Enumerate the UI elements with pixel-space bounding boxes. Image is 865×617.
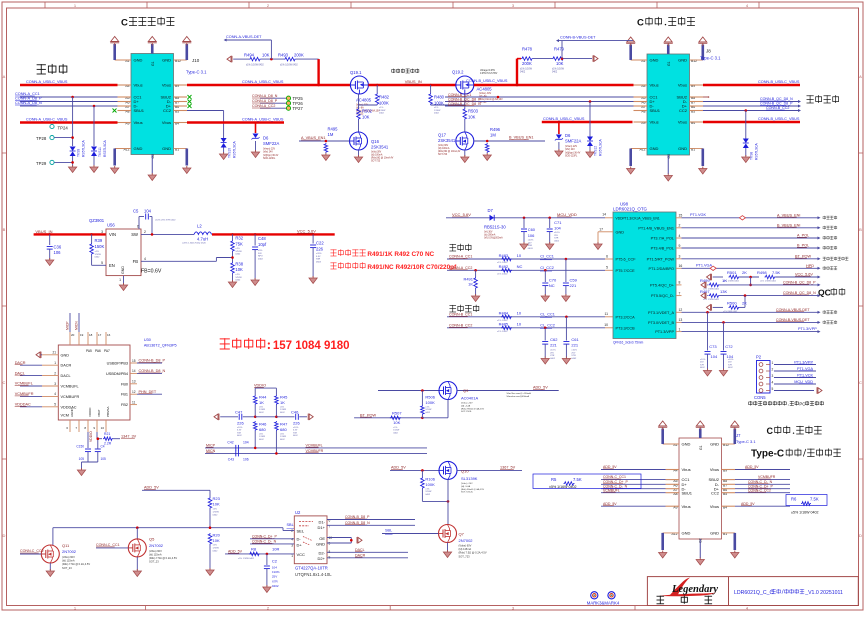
- svg-text:VCC_5.6V: VCC_5.6V: [795, 272, 813, 276]
- svg-text:±5%: ±5%: [259, 407, 263, 409]
- svg-text:C: C: [637, 18, 644, 29]
- svg-text:(Rds) 8Ω @ 10mA,4V: (Rds) 8Ω @ 10mA,4V: [438, 150, 461, 153]
- svg-text:LDR6021Q_OTG: LDR6021Q_OTG: [613, 207, 648, 212]
- svg-text:MCU_VDD: MCU_VDD: [794, 380, 813, 384]
- svg-text:CONN-A_CC2: CONN-A_CC2: [252, 104, 275, 108]
- svg-text:MICP: MICP: [66, 321, 70, 330]
- svg-text:PT5.4/QC_D+: PT5.4/QC_D+: [650, 283, 675, 287]
- svg-text:Vbus: Vbus: [162, 120, 171, 125]
- svg-text:X5R: X5R: [528, 245, 533, 247]
- svg-text:CONN-B_CC2: CONN-B_CC2: [449, 324, 472, 328]
- svg-text:1/16W: 1/16W: [95, 254, 102, 256]
- svg-text:9: 9: [679, 244, 681, 248]
- svg-text:PT1.5/RT_POW: PT1.5/RT_POW: [647, 257, 675, 261]
- svg-text:VCMBUFL: VCMBUFL: [306, 443, 323, 447]
- svg-text:25V: 25V: [571, 352, 575, 354]
- svg-text:SOT-723: SOT-723: [371, 161, 381, 163]
- svg-text:AC4805: AC4805: [477, 87, 493, 92]
- svg-text:18: 18: [89, 333, 93, 337]
- svg-text:4: 4: [679, 234, 681, 238]
- svg-text:7.5K: 7.5K: [810, 497, 819, 502]
- svg-text:680: 680: [259, 427, 266, 432]
- svg-text:0.05V=5.6-5.55V: 0.05V=5.6-5.55V: [480, 73, 498, 75]
- svg-text:NC: NC: [517, 264, 523, 269]
- svg-text:CONN-A-VBUS-DET: CONN-A-VBUS-DET: [226, 35, 262, 39]
- svg-text:Vbus: Vbus: [134, 120, 143, 125]
- svg-text:BT_POW: BT_POW: [360, 413, 376, 417]
- svg-text:R6: R6: [791, 497, 797, 502]
- svg-text:100K: 100K: [434, 100, 444, 105]
- svg-text:PT1.VGA: PT1.VGA: [696, 264, 713, 268]
- svg-text:SOD-123FL: SOD-123FL: [565, 156, 578, 158]
- svg-text:R46: R46: [259, 422, 267, 427]
- svg-text:0402: 0402: [552, 72, 558, 74]
- svg-text:±1%: ±1%: [95, 251, 99, 253]
- svg-text:D2-: D2-: [319, 550, 326, 555]
- svg-text:TVS12: TVS12: [594, 146, 598, 156]
- svg-text:±10%: ±10%: [728, 359, 733, 361]
- svg-text:(Id) 115mA: (Id) 115mA: [459, 547, 472, 551]
- svg-text:X5R: X5R: [293, 432, 298, 434]
- svg-text:0402: 0402: [554, 240, 560, 242]
- svg-text:TVS9: TVS9: [77, 149, 81, 157]
- svg-text:(Vdss) -20V: (Vdss) -20V: [461, 483, 473, 485]
- svg-text:CONN-B_D8_N: CONN-B_D8_N: [345, 521, 370, 525]
- svg-text:R492: R492: [499, 264, 509, 269]
- svg-text:5: 5: [101, 261, 103, 265]
- svg-text:GND: GND: [316, 542, 325, 547]
- svg-text:R106: R106: [425, 476, 435, 481]
- svg-text:RS5TL9CA: RS5TL9CA: [103, 140, 107, 157]
- svg-text:C61: C61: [571, 337, 579, 342]
- svg-text:VBAT: VBAT: [97, 409, 101, 417]
- svg-text:R483: R483: [499, 253, 509, 258]
- svg-text:(Vds) 30V: (Vds) 30V: [438, 145, 449, 147]
- svg-text:104: 104: [272, 566, 277, 570]
- svg-text:AGND: AGND: [70, 407, 74, 417]
- svg-text:Type-C 3.1: Type-C 3.1: [736, 439, 756, 444]
- svg-text:X5R: X5R: [237, 432, 242, 434]
- svg-text:(Id) -4.2A: (Id) -4.2A: [461, 404, 471, 407]
- svg-text:D6: D6: [565, 133, 571, 138]
- svg-text:7.5K: 7.5K: [573, 477, 582, 482]
- svg-text:10pf: 10pf: [258, 242, 267, 247]
- svg-text:6.3V: 6.3V: [293, 430, 298, 432]
- svg-text:HPD: HPD: [806, 264, 814, 268]
- svg-text:B_VBUS_ENI: B_VBUS_ENI: [777, 223, 800, 227]
- svg-text:0402: 0402: [213, 550, 219, 552]
- svg-text:R501: R501: [727, 270, 737, 275]
- svg-text:J8: J8: [706, 49, 711, 54]
- svg-text:ADD_5V: ADD_5V: [603, 502, 617, 506]
- svg-text:VCMBUFL: VCMBUFL: [61, 385, 79, 389]
- svg-text:CONN-C_CC1: CONN-C_CC1: [603, 475, 626, 479]
- svg-text:VDDIO: VDDIO: [88, 407, 92, 417]
- svg-text:TP29: TP29: [36, 161, 47, 166]
- svg-text:SOT_723: SOT_723: [459, 554, 471, 558]
- svg-text:GND: GND: [121, 266, 125, 274]
- svg-text:VDDIO: VDDIO: [254, 384, 266, 388]
- svg-text:R507: R507: [392, 410, 402, 415]
- svg-text:13K: 13K: [720, 289, 727, 294]
- svg-text:±5% 1/16W 0402: ±5% 1/16W 0402: [238, 558, 255, 560]
- svg-text:25V: 25V: [554, 235, 558, 237]
- svg-text:C46: C46: [291, 409, 299, 414]
- svg-text:Vbus: Vbus: [678, 83, 687, 88]
- svg-text:R45: R45: [280, 395, 288, 400]
- svg-text:CONN-B_QC_D8_N: CONN-B_QC_D8_N: [760, 97, 793, 101]
- svg-text:FB=0.6V: FB=0.6V: [141, 268, 162, 274]
- svg-text:C62: C62: [550, 337, 558, 342]
- svg-text:(Id) 100mA: (Id) 100mA: [438, 147, 450, 150]
- svg-text:106: 106: [528, 233, 535, 238]
- svg-text:VCC_5.6V: VCC_5.6V: [452, 212, 471, 217]
- svg-text:A_VBUS_EN1: A_VBUS_EN1: [301, 136, 325, 140]
- svg-text:±5%: ±5%: [280, 434, 284, 436]
- svg-text:±5%: ±5%: [213, 545, 217, 547]
- svg-text:226: 226: [316, 246, 324, 251]
- svg-text:1: 1: [679, 327, 681, 331]
- svg-text:DACL: DACL: [61, 374, 71, 378]
- svg-text:CONN-C_D-_N: CONN-C_D-_N: [252, 539, 277, 543]
- svg-text:SL3139K: SL3139K: [461, 476, 478, 481]
- svg-text:0402: 0402: [258, 258, 264, 260]
- svg-text:TVS8: TVS8: [750, 152, 754, 160]
- svg-text:±5%: ±5%: [258, 250, 262, 252]
- svg-text:±1%: ±1%: [434, 107, 438, 109]
- svg-text:R20: R20: [213, 532, 221, 537]
- svg-text:17: 17: [98, 333, 102, 337]
- svg-text:PC: PC: [799, 402, 805, 407]
- svg-text:EN: EN: [109, 263, 115, 268]
- svg-text:ADD_5V: ADD_5V: [745, 465, 759, 469]
- svg-text:±10%: ±10%: [272, 570, 280, 574]
- svg-text:1/16W: 1/16W: [425, 409, 431, 411]
- svg-text:SMF22A: SMF22A: [263, 141, 279, 146]
- svg-text:U56: U56: [107, 223, 115, 228]
- svg-text:U2: U2: [295, 510, 301, 515]
- svg-text:DACR: DACR: [355, 553, 366, 557]
- svg-text:5: 5: [54, 403, 56, 407]
- svg-text:PA5: PA5: [86, 349, 92, 353]
- svg-text:J7: J7: [736, 433, 741, 438]
- svg-text:(Rds) 78mΩ @ 4A,4.5V: (Rds) 78mΩ @ 4A,4.5V: [461, 407, 485, 410]
- svg-text:CONN-A_USB-C_VBUS: CONN-A_USB-C_VBUS: [242, 80, 284, 84]
- svg-text:RS5TL9CA: RS5TL9CA: [755, 143, 759, 160]
- svg-text:PT1.VGA: PT1.VGA: [797, 367, 814, 371]
- svg-text:PHN_DET: PHN_DET: [139, 390, 157, 394]
- svg-text:GND: GND: [678, 58, 687, 63]
- svg-text:10: 10: [517, 253, 522, 258]
- svg-text:VDDPT1.3/CKJA_VBUS_EN1: VDDPT1.3/CKJA_VBUS_EN1: [616, 216, 660, 220]
- svg-text:4: 4: [144, 257, 146, 261]
- svg-text:CI_CC1: CI_CC1: [540, 255, 554, 259]
- svg-text:1/16W: 1/16W: [235, 251, 242, 253]
- svg-text:R479: R479: [554, 47, 565, 52]
- svg-text:±1%: ±1%: [379, 107, 383, 109]
- svg-text:Vbus: Vbus: [134, 83, 143, 88]
- svg-text:25V: 25V: [728, 362, 732, 364]
- svg-text:(Id) 115mA: (Id) 115mA: [62, 559, 75, 563]
- svg-text:Type-C 3.1: Type-C 3.1: [186, 70, 207, 75]
- svg-text:2N7002: 2N7002: [149, 543, 164, 548]
- svg-text:R495: R495: [328, 127, 339, 132]
- svg-text:15: 15: [132, 359, 136, 363]
- svg-text:200K: 200K: [294, 52, 304, 57]
- svg-text:SOD-123FL: SOD-123FL: [263, 158, 276, 160]
- svg-text:NPO: NPO: [258, 256, 263, 258]
- svg-text:C47: C47: [235, 409, 243, 414]
- svg-text:D+: D+: [297, 543, 303, 548]
- svg-text:C43: C43: [228, 457, 234, 461]
- svg-text:CONN-B_CC1: CONN-B_CC1: [449, 313, 472, 317]
- svg-text:PT3.2/CCA: PT3.2/CCA: [616, 315, 636, 319]
- svg-text:106: 106: [243, 457, 249, 461]
- svg-text:CONN-C_CC2: CONN-C_CC2: [20, 549, 44, 553]
- svg-text:C4: C4: [101, 445, 105, 449]
- svg-text:U30: U30: [144, 338, 151, 342]
- svg-text:1K: 1K: [468, 282, 473, 287]
- svg-text:±5%: ±5%: [259, 434, 263, 436]
- svg-text:(Vdss) 60V: (Vdss) 60V: [62, 555, 75, 559]
- svg-text:CONN-C_D-_N: CONN-C_D-_N: [748, 480, 773, 484]
- svg-text:100K: 100K: [425, 482, 435, 487]
- svg-text:Vbus: Vbus: [650, 83, 659, 88]
- svg-text:MICN: MICN: [206, 449, 216, 453]
- svg-text:SW: SW: [131, 232, 138, 237]
- svg-text:CONN-A_CC2: CONN-A_CC2: [449, 266, 472, 270]
- svg-text:QZ3901: QZ3901: [89, 218, 105, 223]
- svg-text:FB2: FB2: [121, 403, 128, 407]
- svg-text:PT3.0/VDET_B: PT3.0/VDET_B: [648, 321, 674, 325]
- svg-text:GND: GND: [682, 442, 691, 447]
- svg-text:±10%: ±10%: [700, 359, 705, 361]
- svg-text:C: C: [121, 18, 128, 29]
- svg-text:G1: G1: [151, 61, 155, 66]
- svg-text:A: A: [3, 74, 6, 79]
- svg-text:±1% 1/16W 0402: ±1% 1/16W 0402: [280, 65, 298, 67]
- svg-text:RS5TL9CA: RS5TL9CA: [233, 141, 237, 158]
- svg-text:MARK3&MARK4: MARK3&MARK4: [587, 601, 620, 606]
- svg-text:1: 1: [772, 361, 774, 365]
- svg-text:SBL: SBL: [287, 523, 294, 527]
- svg-text:0402: 0402: [235, 254, 241, 256]
- svg-text:C71: C71: [554, 220, 562, 225]
- svg-text:SBU1: SBU1: [134, 108, 145, 113]
- svg-text:CONN-B-VBUS-DET: CONN-B-VBUS-DET: [560, 36, 596, 40]
- svg-text:1347_3V: 1347_3V: [121, 434, 137, 438]
- svg-text:OE: OE: [319, 536, 325, 541]
- svg-text:±1%: ±1%: [425, 489, 429, 491]
- svg-text:25V: 25V: [550, 352, 554, 354]
- svg-text:0402: 0402: [379, 113, 385, 115]
- svg-text:B_POL: B_POL: [797, 244, 809, 248]
- svg-text:±1%: ±1%: [235, 274, 239, 276]
- svg-text:R485: R485: [499, 322, 509, 327]
- svg-text:VBUS_IN: VBUS_IN: [405, 79, 422, 84]
- svg-text:GND: GND: [134, 58, 143, 63]
- svg-text:2SK3541: 2SK3541: [371, 145, 389, 150]
- svg-text:2K: 2K: [742, 301, 747, 306]
- svg-text:105: 105: [79, 457, 85, 461]
- svg-text:ADD_5V: ADD_5V: [603, 465, 617, 469]
- svg-text:10K: 10K: [213, 501, 220, 506]
- svg-text:1/16W: 1/16W: [259, 436, 265, 438]
- svg-text:(Rds) 53mΩ @ 4A,4.5V: (Rds) 53mΩ @ 4A,4.5V: [461, 488, 485, 491]
- svg-text:2.2R: 2.2R: [104, 442, 112, 446]
- svg-text:C59: C59: [570, 277, 578, 282]
- svg-text:NC: NC: [549, 283, 555, 288]
- svg-text:D: D: [859, 533, 862, 538]
- svg-text:VCMBUFR: VCMBUFR: [61, 395, 80, 399]
- svg-text:0402: 0402: [434, 113, 440, 115]
- svg-text:(Vrwm) 22V: (Vrwm) 22V: [263, 148, 276, 151]
- svg-text:(Rds) 7.5Ω @ 0.2A,4.5V: (Rds) 7.5Ω @ 0.2A,4.5V: [149, 556, 177, 560]
- svg-text:0402: 0402: [550, 358, 556, 360]
- svg-text:CONN-B_QC_D8_N: CONN-B_QC_D8_N: [783, 291, 816, 295]
- svg-text:104: 104: [554, 226, 561, 231]
- svg-text:CL_CC1: CL_CC1: [540, 313, 555, 317]
- svg-text:CC2: CC2: [679, 108, 688, 113]
- svg-text:Vbus: Vbus: [650, 120, 659, 125]
- svg-text:0603: 0603: [316, 261, 322, 263]
- svg-text:CONN-B_QC_D8_P: CONN-B_QC_D8_P: [448, 97, 481, 101]
- svg-text:VCMBUFR: VCMBUFR: [758, 475, 776, 479]
- svg-text:50V: 50V: [258, 253, 262, 255]
- svg-text:±1% 1/402: ±1% 1/402: [497, 274, 508, 276]
- svg-text:R482: R482: [379, 95, 390, 100]
- svg-text:±10%: ±10%: [554, 232, 560, 234]
- svg-text:C22: C22: [316, 241, 324, 246]
- svg-text:11: 11: [604, 312, 608, 316]
- svg-text:5: 5: [772, 387, 774, 391]
- svg-text:221: 221: [571, 343, 578, 348]
- svg-text:R503: R503: [468, 109, 479, 114]
- svg-text:R493: R493: [278, 52, 289, 57]
- svg-text:50mOhm max@+150mA: 50mOhm max@+150mA: [507, 392, 532, 395]
- svg-text:ADD_5V: ADD_5V: [144, 486, 159, 490]
- svg-text:DACL: DACL: [355, 548, 365, 552]
- svg-text:CONN-B_CC2: CONN-B_CC2: [766, 106, 789, 110]
- svg-text:2: 2: [772, 368, 774, 372]
- svg-text:157 1084 9180: 157 1084 9180: [273, 340, 350, 352]
- svg-text:D2+: D2+: [318, 556, 326, 561]
- svg-text:±1% 1/16W 0402: ±1% 1/16W 0402: [246, 65, 264, 67]
- svg-text:PT5.5/QC_D-: PT5.5/QC_D-: [651, 294, 675, 298]
- svg-text:PT1.4/B_VBUS_EN1: PT1.4/B_VBUS_EN1: [638, 226, 674, 230]
- svg-text:C48: C48: [258, 236, 266, 241]
- svg-text:C60: C60: [528, 227, 536, 232]
- svg-text:AB136T2_QFN3P5: AB136T2_QFN3P5: [144, 344, 177, 348]
- svg-text:5: 5: [606, 266, 608, 270]
- svg-text:CONN-B_QC_D8_N: CONN-B_QC_D8_N: [448, 102, 481, 106]
- svg-text:2: 2: [291, 529, 293, 533]
- svg-text:D7: D7: [488, 208, 494, 213]
- svg-text:Vbus: Vbus: [162, 83, 171, 88]
- svg-text:105: 105: [101, 457, 107, 461]
- svg-text:Q7: Q7: [459, 531, 465, 536]
- svg-text:GND: GND: [162, 58, 171, 63]
- svg-text:GND: GND: [710, 442, 719, 447]
- svg-text:CONN-A_USB-C_VBUS: CONN-A_USB-C_VBUS: [26, 118, 68, 122]
- svg-text:C: C: [767, 426, 774, 436]
- svg-text:P2: P2: [756, 355, 762, 360]
- svg-text:R21: R21: [104, 432, 110, 436]
- svg-text:17: 17: [599, 227, 603, 231]
- svg-text:1: 1: [54, 361, 56, 365]
- svg-text:TP27: TP27: [293, 106, 304, 111]
- svg-text:VCC_5.6V: VCC_5.6V: [297, 228, 316, 233]
- svg-text:(Vdss) -20V: (Vdss) -20V: [461, 403, 473, 405]
- svg-text:±1%: ±1%: [393, 427, 397, 429]
- svg-text:PT3.3/CCB: PT3.3/CCB: [616, 326, 636, 330]
- svg-text:R499: R499: [700, 278, 710, 283]
- svg-text:10: 10: [604, 323, 608, 327]
- svg-text:150K: 150K: [95, 244, 105, 249]
- svg-text:CONN-A_D8_P: CONN-A_D8_P: [252, 99, 278, 103]
- svg-text:10K: 10K: [213, 538, 220, 543]
- svg-text:Type-C: Type-C: [751, 449, 784, 460]
- svg-text:16: 16: [107, 333, 111, 337]
- svg-text:±1% 1/402: ±1% 1/402: [497, 331, 508, 333]
- svg-text:CONN-A_CC1: CONN-A_CC1: [15, 92, 40, 96]
- svg-text:TVS10: TVS10: [228, 148, 232, 158]
- svg-text:16: 16: [679, 264, 683, 268]
- svg-text:20: 20: [71, 333, 75, 337]
- svg-text:CONN-C_CC2: CONN-C_CC2: [748, 488, 771, 492]
- svg-text:C70: C70: [549, 277, 557, 282]
- svg-text:±5%: ±5%: [280, 407, 284, 409]
- svg-text:R47: R47: [280, 422, 288, 427]
- svg-text:Q19.1: Q19.1: [350, 70, 362, 75]
- svg-text:2N7002: 2N7002: [459, 538, 474, 543]
- svg-text:0402: 0402: [571, 358, 577, 360]
- svg-text:D1+: D1+: [318, 525, 326, 530]
- svg-text:±1% 1/16W 0402: ±1% 1/16W 0402: [703, 299, 720, 301]
- svg-text:USBDP/PB3: USBDP/PB3: [107, 362, 128, 366]
- svg-text:10K: 10K: [556, 61, 564, 66]
- svg-text:1/16W: 1/16W: [379, 110, 386, 112]
- svg-text:CONN-A_USB-C_VBUS: CONN-A_USB-C_VBUS: [242, 118, 284, 122]
- svg-text:(Rds) 7.5Ω @ 0.2A,4.5V: (Rds) 7.5Ω @ 0.2A,4.5V: [62, 562, 90, 566]
- svg-text:D-: D-: [297, 537, 302, 542]
- svg-text:±10%: ±10%: [293, 427, 298, 429]
- svg-text:GND: GND: [162, 146, 171, 151]
- svg-text:C2: C2: [272, 559, 278, 564]
- svg-text:TP28: TP28: [36, 136, 47, 141]
- svg-text:CONN-C_D+_P: CONN-C_D+_P: [603, 480, 628, 484]
- svg-text:PT5.7/CCE: PT5.7/CCE: [616, 269, 636, 273]
- svg-text:GND: GND: [616, 230, 625, 234]
- svg-text:CONN-A-VBUS-DET: CONN-A-VBUS-DET: [776, 308, 810, 312]
- svg-text:CC2: CC2: [163, 108, 172, 113]
- svg-text:FB0: FB0: [121, 382, 128, 386]
- svg-text:PT1.2/DA/BPO: PT1.2/DA/BPO: [648, 267, 674, 271]
- svg-text:±1% 1/16W: ±1% 1/16W: [520, 69, 533, 71]
- svg-text:(Vr) 30V: (Vr) 30V: [484, 231, 493, 234]
- svg-text:GND: GND: [682, 531, 691, 536]
- svg-text:(V@Ipp) 36.4V: (V@Ipp) 36.4V: [565, 152, 581, 154]
- svg-text:Vbus: Vbus: [710, 467, 719, 472]
- svg-text:Vbus: Vbus: [678, 120, 687, 125]
- svg-text:R8: R8: [251, 546, 257, 551]
- svg-text:±20% 1.5A 170mΩ 2520: ±20% 1.5A 170mΩ 2520: [182, 242, 207, 245]
- svg-text:1367_5V: 1367_5V: [500, 466, 516, 470]
- svg-text:R494: R494: [244, 52, 255, 57]
- svg-text:10K: 10K: [468, 114, 476, 119]
- svg-text:SBU1: SBU1: [650, 108, 661, 113]
- svg-text:J10: J10: [192, 58, 200, 63]
